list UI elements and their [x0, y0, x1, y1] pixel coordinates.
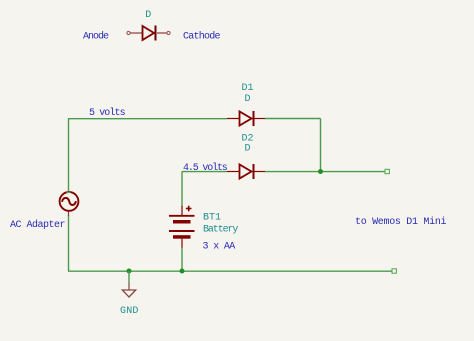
pin end tick at AC source top — [67, 191, 71, 193]
svg-text:AC Adapter: AC Adapter — [10, 219, 66, 231]
junction at battery bottom — [180, 269, 185, 274]
svg-text:D: D — [245, 144, 251, 155]
wire from D1 cathode to corner — [265, 118, 321, 120]
junction at GND stub — [127, 269, 132, 274]
svg-text:Anode: Anode — [83, 31, 109, 43]
svg-text:D: D — [145, 10, 151, 21]
diode D1 — [227, 111, 265, 126]
diode D (demo symbol at top) — [127, 26, 170, 41]
svg-text:BT1: BT1 — [203, 213, 221, 224]
wire end marker (bottom rail) — [392, 269, 396, 273]
pin stub below AC source — [68, 211, 70, 216]
wire vertical from D1 branch down to 4.5V rail — [320, 119, 322, 172]
wire 4.5V rail to output — [265, 171, 385, 173]
svg-text:to Wemos D1 Mini: to Wemos D1 Mini — [355, 216, 447, 228]
svg-text:GND: GND — [120, 306, 139, 317]
svg-text:3 x AA: 3 x AA — [203, 242, 236, 253]
wire bottom rail — [68, 270, 392, 272]
diode D2 — [227, 164, 265, 179]
ground — [122, 283, 135, 297]
battery BT1 — [169, 206, 195, 249]
junction at 4.5V rail — [318, 169, 323, 174]
wire battery vertical bottom — [181, 248, 183, 272]
svg-text:5 volts: 5 volts — [89, 107, 126, 119]
wire 4.5V from battery corner to D2 anode — [182, 171, 227, 173]
wire left vertical upper (to AC source top pin) — [68, 119, 70, 193]
wire end marker (4.5V output) — [385, 169, 389, 173]
AC source circle (AC Adapter) — [60, 192, 79, 211]
wire 5V horizontal — [68, 118, 227, 120]
wire battery vertical top — [181, 172, 183, 208]
svg-text:Battery: Battery — [203, 225, 238, 236]
svg-text:D: D — [245, 94, 251, 105]
svg-text:Cathode: Cathode — [183, 31, 221, 43]
wire left vertical lower (AC source bottom to bottom rail) — [68, 215, 70, 271]
svg-text:D1: D1 — [242, 83, 254, 94]
wire GND stub — [128, 271, 130, 283]
